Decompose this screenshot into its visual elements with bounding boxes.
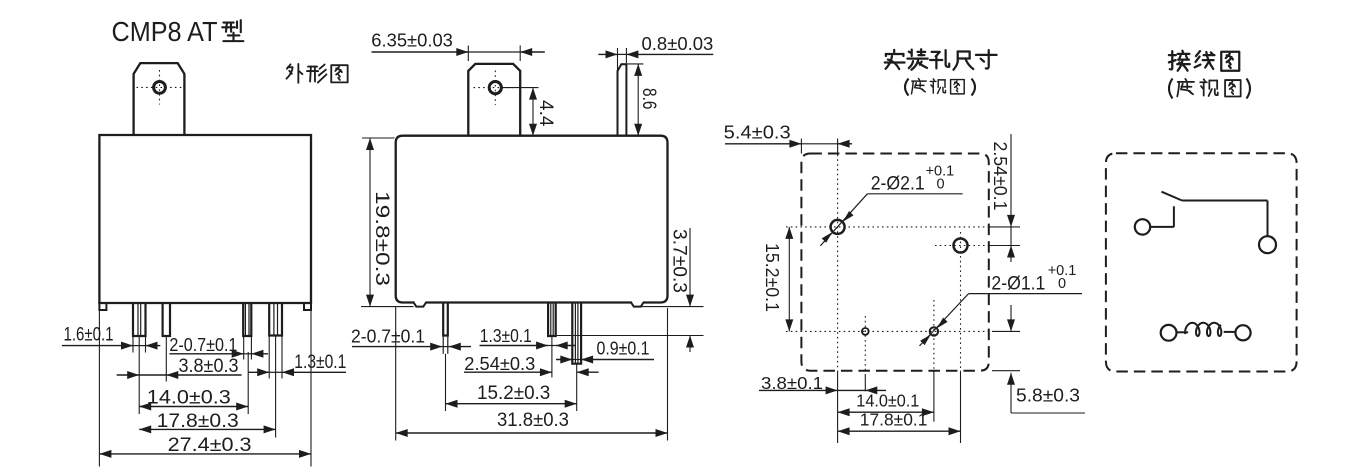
svg-text:0.8±0.03: 0.8±0.03 <box>642 34 714 54</box>
svg-text:14.0±0.3: 14.0±0.3 <box>147 388 231 409</box>
svg-text:15.2±0.1: 15.2±0.1 <box>762 243 782 312</box>
svg-text:2-Ø1.1: 2-Ø1.1 <box>991 274 1045 295</box>
svg-text:0: 0 <box>1058 276 1066 292</box>
svg-text:6.35±0.03: 6.35±0.03 <box>371 31 453 51</box>
svg-text:2-Ø2.1: 2-Ø2.1 <box>871 174 925 195</box>
svg-text:4.4: 4.4 <box>535 100 556 127</box>
svg-text:CMP8 AT: CMP8 AT <box>112 16 218 47</box>
svg-text:14.0±0.1: 14.0±0.1 <box>856 390 919 410</box>
svg-text:0.9±0.1: 0.9±0.1 <box>597 338 650 358</box>
svg-text:0: 0 <box>937 177 945 193</box>
svg-text:1.3±0.1: 1.3±0.1 <box>294 352 346 373</box>
svg-text:2.54±0.1: 2.54±0.1 <box>990 142 1010 211</box>
svg-text:2-0.7±0.1: 2-0.7±0.1 <box>351 327 425 347</box>
svg-text:8.6: 8.6 <box>638 88 659 110</box>
svg-text:3.7±0.3: 3.7±0.3 <box>669 229 690 293</box>
svg-text:2-0.7±0.1: 2-0.7±0.1 <box>169 335 237 355</box>
svg-text:19.8±0.3: 19.8±0.3 <box>371 191 392 286</box>
svg-text:17.8±0.3: 17.8±0.3 <box>157 411 239 432</box>
svg-text:27.4±0.3: 27.4±0.3 <box>168 435 252 456</box>
svg-text:5.8±0.3: 5.8±0.3 <box>1016 386 1080 406</box>
svg-text:17.8±0.1: 17.8±0.1 <box>860 409 928 429</box>
svg-text:31.8±0.3: 31.8±0.3 <box>497 410 569 431</box>
svg-text:5.4±0.3: 5.4±0.3 <box>724 123 791 143</box>
svg-text:3.8±0.3: 3.8±0.3 <box>179 356 239 377</box>
svg-text:1.3±0.1: 1.3±0.1 <box>480 326 532 346</box>
svg-text:1.6±0.1: 1.6±0.1 <box>64 325 114 346</box>
svg-text:2.54±0.3: 2.54±0.3 <box>464 354 535 374</box>
svg-text:15.2±0.3: 15.2±0.3 <box>477 383 550 404</box>
